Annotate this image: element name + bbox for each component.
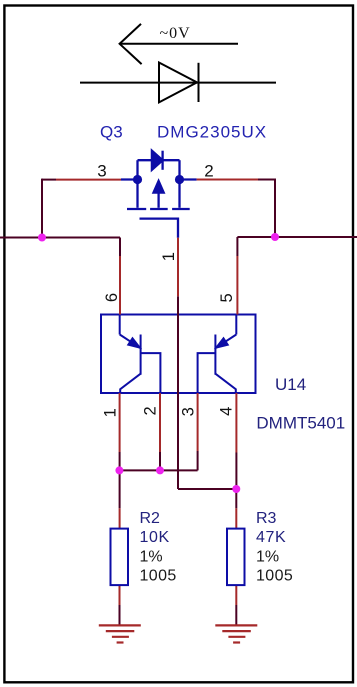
svg-text:2: 2 <box>204 161 213 180</box>
svg-text:3: 3 <box>97 161 106 180</box>
svg-text:3: 3 <box>180 407 198 416</box>
svg-text:U14: U14 <box>275 375 306 394</box>
svg-text:1: 1 <box>102 408 120 417</box>
svg-text:10K: 10K <box>140 529 170 546</box>
svg-text:6: 6 <box>103 293 121 302</box>
svg-text:DMG2305UX: DMG2305UX <box>157 123 267 142</box>
svg-text:R2: R2 <box>140 510 161 527</box>
svg-text:47K: 47K <box>256 529 286 546</box>
svg-text:1005: 1005 <box>256 568 293 585</box>
svg-text:~0V: ~0V <box>160 25 191 42</box>
svg-text:1%: 1% <box>256 549 279 566</box>
svg-text:2: 2 <box>142 406 160 415</box>
svg-text:1%: 1% <box>140 549 163 566</box>
svg-text:5: 5 <box>218 293 236 302</box>
svg-text:1005: 1005 <box>140 568 177 585</box>
svg-text:4: 4 <box>218 407 236 416</box>
svg-text:DMMT5401: DMMT5401 <box>256 414 345 433</box>
svg-text:R3: R3 <box>256 510 277 527</box>
svg-text:Q3: Q3 <box>100 123 123 142</box>
svg-text:1: 1 <box>160 252 178 261</box>
